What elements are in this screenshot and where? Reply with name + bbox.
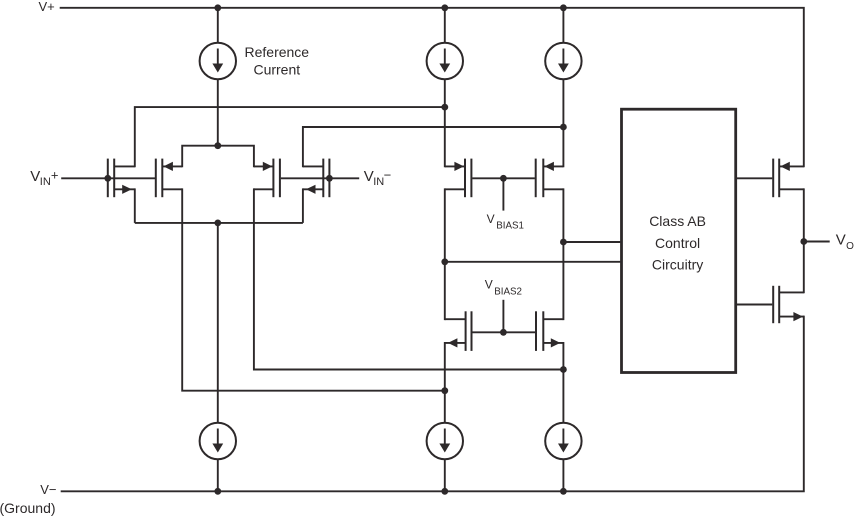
svg-text:V+: V+ bbox=[39, 0, 55, 14]
node V- @ I6 bbox=[560, 488, 567, 495]
node VO bbox=[800, 238, 807, 245]
svg-text:O: O bbox=[846, 241, 854, 252]
wire NMOS tail down to I4 bbox=[217, 223, 219, 423]
svg-text:BIAS1: BIAS1 bbox=[496, 220, 524, 231]
wire left cascode node Q5-Q8 bbox=[444, 188, 446, 320]
transistor Q7 (PMOS output) bbox=[773, 159, 804, 198]
label Reference Current bbox=[245, 44, 310, 78]
wire V- rail and riser to Q10 source bbox=[61, 316, 804, 492]
node V- @ I4 bbox=[214, 488, 221, 495]
wire Q1 source down bbox=[134, 188, 136, 223]
block U1 Class AB Control Circuitry bbox=[622, 109, 736, 372]
wire Class AB box to Q7 gate bbox=[737, 177, 772, 179]
transistor Q10 (NMOS output) bbox=[773, 286, 804, 323]
label VBIAS2 bbox=[485, 277, 522, 297]
wire VIN- gate wire bbox=[281, 177, 359, 179]
wire I6 bottom stub bbox=[562, 459, 564, 491]
current source I2 (left mirror) bbox=[427, 43, 463, 79]
svg-text:BIAS2: BIAS2 bbox=[494, 286, 522, 297]
node V- @ I5 bbox=[441, 488, 448, 495]
wire NMOS pair tail rail bbox=[135, 222, 303, 224]
transistor Q8 (NMOS cascode left) bbox=[445, 311, 472, 351]
wire Q7 drain to VO to Q10 drain bbox=[803, 188, 805, 293]
node left cascode tap bbox=[441, 258, 448, 265]
wire I4 bottom stub bbox=[217, 459, 219, 491]
wire Q8 source down to I5 bbox=[444, 342, 446, 423]
wire Q4 source down bbox=[302, 188, 304, 223]
label VBIAS1 bbox=[487, 212, 524, 231]
transistor Q5 (PMOS cascode left) bbox=[445, 159, 472, 198]
svg-text:Circuitry: Circuitry bbox=[652, 257, 703, 273]
current source I5 (left sink) bbox=[427, 423, 463, 459]
wire right cascode node Q6-Q9 bbox=[562, 188, 564, 320]
node PMOS tail bbox=[214, 142, 221, 149]
node VIN+ gate bbox=[104, 175, 111, 182]
wire PMOS pair tail rail bbox=[182, 146, 254, 168]
label V- bbox=[40, 482, 56, 497]
svg-text:Class AB: Class AB bbox=[649, 213, 706, 229]
node V+ @ I2 bbox=[441, 4, 448, 11]
label VIN- bbox=[364, 167, 391, 188]
svg-text:V−: V− bbox=[40, 482, 56, 497]
svg-text:(Ground): (Ground) bbox=[0, 500, 56, 516]
wire Q2 drain down and right to I5 node bbox=[182, 188, 445, 390]
wire right cascode to Class AB box bbox=[563, 241, 620, 243]
label V+ bbox=[39, 0, 55, 14]
wire VBIAS2 stub bbox=[502, 300, 504, 333]
wire Class AB box to Q10 gate bbox=[737, 304, 772, 306]
wire I2 top stub bbox=[444, 8, 446, 43]
transistor Q9 (NMOS cascode right) bbox=[536, 311, 563, 351]
wire Q9 source down to I6 bbox=[562, 342, 564, 423]
node Q4 drain / mirror bbox=[560, 124, 567, 131]
wire V+ rail and drop to Q7 source bbox=[60, 8, 804, 168]
node Q3 drain join bbox=[560, 366, 567, 373]
node VBIAS1 tap bbox=[500, 175, 507, 182]
svg-text:IN: IN bbox=[40, 176, 51, 188]
label VIN+ bbox=[30, 167, 58, 188]
wire VBIAS1 stub bbox=[502, 178, 504, 210]
svg-text:−: − bbox=[384, 167, 392, 182]
current source I3 (right mirror) bbox=[545, 43, 581, 79]
wire left cascode to Class AB box bbox=[445, 261, 621, 263]
label VO bbox=[836, 231, 854, 252]
wire I5 bottom stub bbox=[444, 459, 446, 491]
svg-text:Current: Current bbox=[253, 62, 300, 78]
node VIN- gate bbox=[326, 175, 333, 182]
wire VBIAS2 gate bus bbox=[472, 331, 535, 333]
wire VIN+ gate wire bbox=[61, 177, 155, 179]
current source I1 (reference current) bbox=[200, 43, 236, 79]
node Q1 drain / mirror bbox=[441, 104, 448, 111]
svg-text:IN: IN bbox=[373, 176, 384, 188]
current source I6 (right sink) bbox=[545, 423, 581, 459]
wire VBIAS1 gate bus bbox=[472, 177, 535, 179]
svg-text:Control: Control bbox=[655, 235, 700, 251]
svg-text:V: V bbox=[485, 277, 493, 291]
transistor Q3 (PMOS, VIN- input) bbox=[254, 159, 280, 198]
node V+ @ I1 bbox=[214, 4, 221, 11]
node VBIAS2 tap bbox=[500, 329, 507, 336]
wire Q4 drain up to right mirror bbox=[303, 127, 564, 167]
wire Q1 drain up to left mirror bbox=[135, 107, 445, 167]
transistor Q2 (PMOS, VIN+ input) bbox=[156, 159, 182, 198]
wire I3 top stub bbox=[562, 8, 564, 43]
svg-text:Reference: Reference bbox=[245, 44, 310, 60]
wire I3 to Q6 source bbox=[562, 79, 564, 167]
svg-text:V: V bbox=[836, 231, 846, 248]
node right cascode tap bbox=[560, 239, 567, 246]
wire I1 to PMOS pair tail bbox=[217, 79, 219, 146]
transistor Q6 (PMOS cascode right) bbox=[536, 159, 564, 198]
svg-text:V: V bbox=[487, 212, 495, 226]
current source I4 (NMOS tail sink) bbox=[200, 423, 236, 459]
wire I1 top stub bbox=[217, 8, 219, 43]
node NMOS tail bbox=[214, 220, 221, 227]
wire VO output lead bbox=[804, 241, 830, 243]
svg-text:+: + bbox=[51, 167, 59, 182]
wire Q3 drain down and right to I6 node bbox=[254, 188, 564, 369]
transistor Q4 (NMOS, VIN- input) bbox=[303, 159, 330, 198]
transistor Q1 (NMOS, VIN+ input) bbox=[108, 159, 135, 198]
node V+ @ I3 bbox=[560, 4, 567, 11]
wire I2 to Q5 source bbox=[444, 79, 446, 167]
node Q2 drain join bbox=[441, 387, 448, 394]
label (Ground) bbox=[0, 500, 56, 516]
